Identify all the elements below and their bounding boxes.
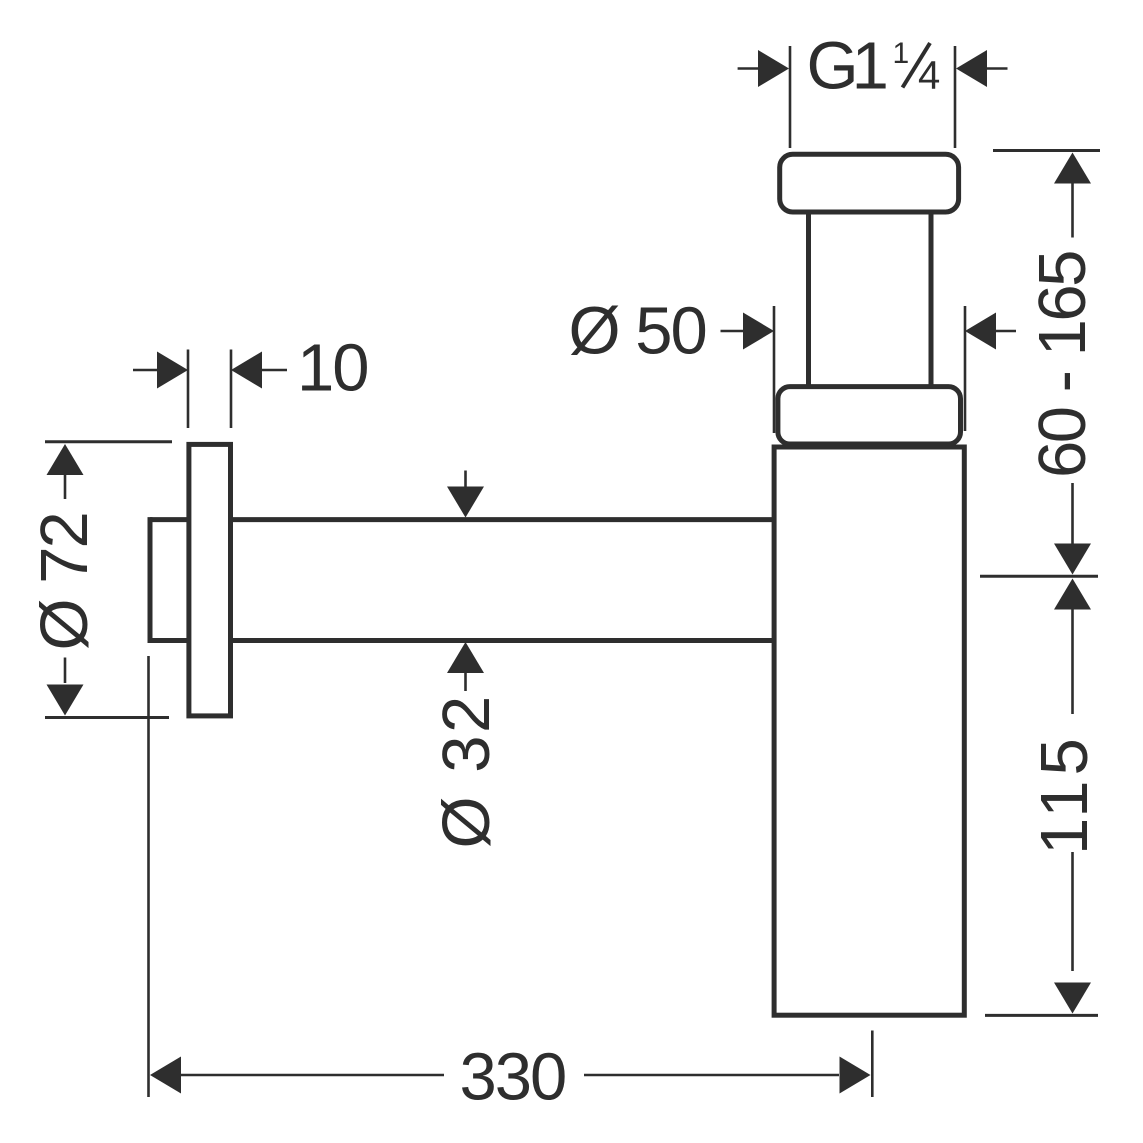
dimension D72 lower line [64, 658, 67, 684]
horizontal pipe bottom line (right of wall flange) [231, 638, 775, 643]
dimension 115 upper line [1071, 609, 1074, 715]
svg-text:115: 115 [1027, 733, 1102, 855]
dimension 60-165 lower line [1071, 483, 1074, 545]
dimension D32 down arrow [447, 487, 484, 518]
dimension 10 right leader line [261, 369, 287, 372]
dimension 10 left extension line [187, 350, 190, 429]
dimension 115 bottom arrow [1054, 983, 1091, 1014]
dimension 60-165 upper line [1071, 183, 1074, 238]
dimension D32 upper stub line [464, 471, 467, 489]
horizontal pipe top line (right of wall flange) [231, 517, 775, 522]
vertical inlet pipe wall left [806, 214, 811, 385]
horizontal pipe bottom line (left of wall flange) [150, 638, 189, 643]
svg-text:Ø 50: Ø 50 [569, 294, 706, 369]
svg-text:10: 10 [297, 331, 368, 406]
dimension D72 upper line [64, 474, 67, 499]
dimension 115 top arrow [1054, 579, 1091, 610]
lower nut flange [778, 387, 961, 444]
dimension G 1 1/4 left extension line [789, 46, 792, 148]
dimension D32 lower stub line [464, 673, 467, 692]
svg-text:1: 1 [893, 37, 910, 70]
dimension G 1 1/4 left arrow [758, 50, 789, 87]
dimension 115 lower line [1071, 852, 1074, 971]
dimension D72 bottom arrow [47, 685, 84, 716]
dimension 330 right arrow [840, 1057, 871, 1094]
dimension D50 left leader line [721, 330, 745, 333]
dimension D72 bottom tick [45, 716, 169, 719]
vertical inlet pipe wall right [929, 214, 934, 385]
horizontal pipe left end cap [148, 517, 153, 643]
dimension 330 right extension line [871, 1031, 874, 1098]
dimension 330 left line [180, 1074, 444, 1077]
dimension 10 right arrow [231, 352, 262, 389]
svg-text:4: 4 [918, 53, 940, 97]
svg-text:330: 330 [460, 1040, 566, 1115]
dimension G 1 1/4 right leader line [986, 67, 1008, 70]
dimension D50 left arrow [743, 313, 774, 350]
dimension 60-165 bottom arrow [1054, 544, 1091, 575]
dimension 330 right line [584, 1074, 839, 1077]
svg-text:Ø 32: Ø 32 [429, 693, 504, 848]
dimension D72 top tick [45, 440, 172, 443]
dimension 330 left extension line [147, 656, 150, 1097]
dimension 10 left leader line [133, 369, 158, 372]
dimension 60-165 bottom tick [980, 575, 1098, 578]
dimension 60-165 top arrow [1054, 153, 1091, 184]
dimension G 1 1/4 right arrow [956, 50, 987, 87]
siphon body [774, 447, 964, 1015]
dimension D50 right leader line [995, 330, 1016, 333]
dimension 10 left arrow [157, 352, 188, 389]
dimension D32 up arrow [447, 642, 484, 673]
dimension 10 right extension line [230, 350, 233, 429]
dimension G 1 1/4 right extension line [954, 46, 957, 148]
dimension 330 left arrow [150, 1057, 181, 1094]
dimension D72 top arrow [47, 444, 84, 475]
svg-text:G1: G1 [807, 29, 886, 104]
wall flange [189, 444, 231, 716]
dimension D50 right arrow [965, 313, 996, 350]
svg-text:Ø 72: Ø 72 [27, 513, 102, 650]
dimension D50 left extension line [773, 306, 776, 433]
horizontal pipe top line (left of wall flange) [150, 517, 189, 522]
dimension G 1 1/4 left leader line [738, 67, 759, 70]
dimension D50 right extension line [964, 306, 967, 431]
label fraction slash [903, 43, 931, 88]
top nut flange [780, 154, 959, 212]
svg-text:60 - 165: 60 - 165 [1025, 252, 1100, 478]
dimension 60-165 top tick [993, 149, 1100, 152]
dimension 115 bottom tick [985, 1014, 1098, 1017]
